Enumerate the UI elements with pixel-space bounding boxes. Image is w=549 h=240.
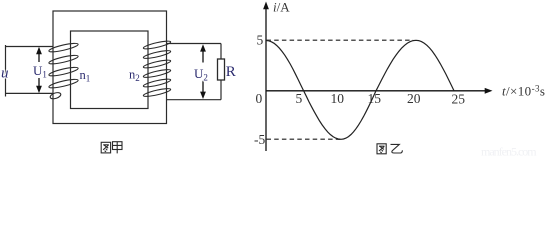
wire: secondary top: [167, 43, 222, 45]
svg-text:u: u: [1, 66, 9, 82]
transformer core inner rectangle: [71, 31, 149, 109]
dashed line +5: [267, 39, 414, 41]
caption 图甲 (drawn glyphs): [101, 142, 122, 154]
voltage arrow U1 down: [38, 78, 40, 88]
wire: secondary right vertical: [220, 44, 222, 100]
svg-text:0: 0: [256, 91, 263, 106]
voltage arrow U2 down: [202, 81, 204, 94]
dashed line -5: [267, 138, 342, 140]
coil n2 (secondary winding): [143, 40, 171, 98]
wire: secondary bottom: [167, 99, 222, 101]
resistor R body: [218, 59, 225, 80]
caption 图乙 (drawn glyphs): [377, 144, 402, 154]
transformer core outer rectangle: [53, 11, 167, 124]
svg-text:25: 25: [452, 92, 466, 107]
svg-text:manfen5.com: manfen5.com: [481, 145, 537, 158]
voltage arrow U1 up: [38, 53, 40, 63]
coil n1 (primary winding): [48, 42, 78, 100]
svg-text:-5: -5: [254, 132, 265, 147]
wire: primary top: [5, 46, 54, 48]
graph x-axis: [266, 90, 487, 92]
current waveform curve: [266, 40, 454, 139]
svg-text:R: R: [226, 64, 236, 80]
wire: primary bottom: [5, 92, 54, 94]
svg-text:5: 5: [296, 91, 303, 106]
graph y-axis: [265, 8, 267, 151]
svg-text:5: 5: [257, 33, 264, 48]
voltage arrow U2 up: [202, 50, 204, 63]
svg-text:i/A: i/A: [273, 0, 290, 15]
svg-text:10: 10: [331, 91, 345, 106]
wire: source left vertical: [5, 45, 7, 97]
svg-text:20: 20: [407, 91, 421, 106]
